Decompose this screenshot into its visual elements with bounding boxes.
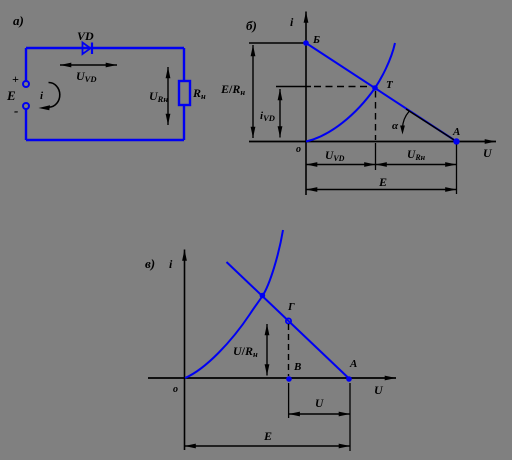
svg-text:i: i <box>290 15 294 29</box>
svg-text:а): а) <box>13 13 24 28</box>
svg-text:U/Rн: U/Rн <box>233 344 258 359</box>
svg-text:UVD: UVD <box>325 150 345 163</box>
svg-text:E/Rн: E/Rн <box>220 82 245 97</box>
svg-text:o: o <box>173 384 178 395</box>
svg-text:+: + <box>12 72 19 86</box>
svg-text:E: E <box>6 88 16 103</box>
svg-text:α: α <box>392 120 399 132</box>
svg-text:URн: URн <box>407 149 426 162</box>
svg-text:U: U <box>315 398 324 410</box>
svg-text:в): в) <box>145 256 155 271</box>
svg-text:i: i <box>169 257 173 271</box>
svg-text:URн: URн <box>149 89 168 104</box>
svg-text:A: A <box>349 358 357 370</box>
svg-text:UVD: UVD <box>76 69 96 84</box>
svg-text:i: i <box>40 90 44 102</box>
svg-text:U: U <box>483 146 493 160</box>
svg-text:B: B <box>293 361 301 373</box>
svg-text:o: o <box>296 144 301 155</box>
svg-text:Rн: Rн <box>192 86 206 101</box>
svg-text:A: A <box>452 126 460 138</box>
svg-text:Т: Т <box>386 79 394 91</box>
svg-text:-: - <box>14 103 18 118</box>
svg-text:б): б) <box>246 18 257 33</box>
svg-text:U: U <box>374 383 384 397</box>
svg-text:E: E <box>378 175 387 189</box>
svg-text:E: E <box>263 429 272 443</box>
svg-text:VD: VD <box>77 29 94 43</box>
svg-text:Г: Г <box>287 301 295 313</box>
svg-text:iVD: iVD <box>260 110 275 123</box>
svg-text:Б: Б <box>312 34 320 46</box>
